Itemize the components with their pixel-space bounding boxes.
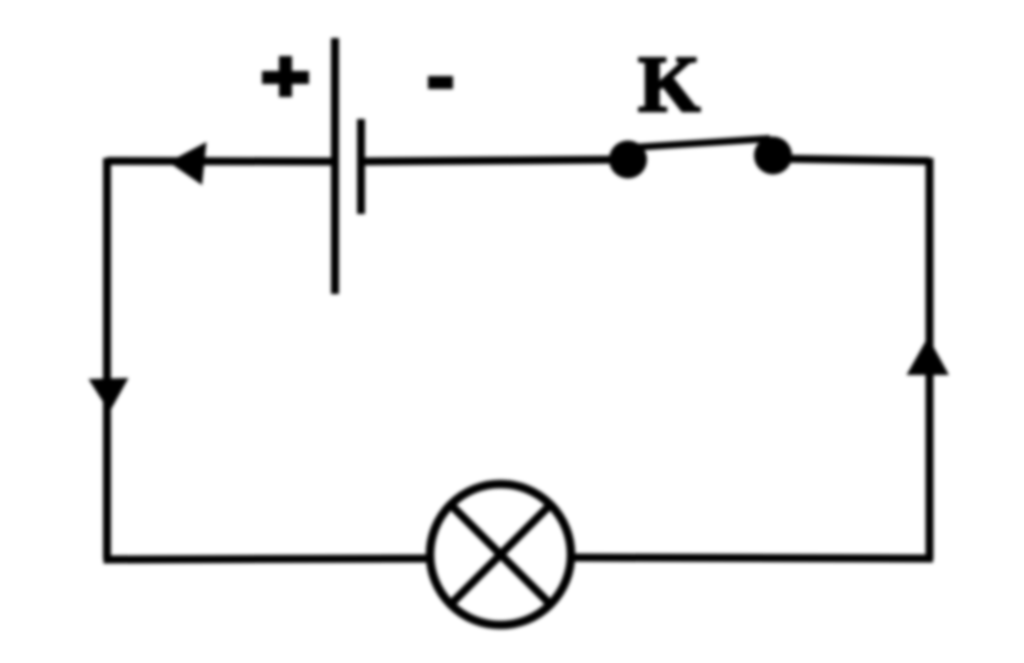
lamp circle	[430, 484, 571, 625]
current arrow down (left wire)	[89, 378, 129, 412]
wire bottom-right segment	[574, 558, 933, 559]
battery plus label	[262, 56, 309, 97]
current arrow up (right wire)	[907, 337, 950, 375]
battery long plate (+)	[331, 38, 339, 294]
wire left vertical	[103, 158, 111, 560]
battery short plate (-)	[357, 119, 365, 214]
wire top-middle segment	[361, 160, 630, 162]
wire top-left segment	[107, 157, 335, 166]
switch K blade	[625, 139, 770, 149]
wire top-right segment	[772, 159, 930, 162]
wire bottom-left segment	[104, 559, 429, 560]
lamp X cross diagonal 1	[451, 505, 551, 605]
switch K left contact dot	[609, 141, 647, 179]
battery minus label	[428, 76, 453, 89]
current arrow left (top wire)	[169, 142, 207, 185]
wire right vertical	[926, 158, 934, 560]
svg-text:K: K	[638, 41, 700, 129]
lamp X cross diagonal 2	[451, 505, 551, 605]
switch K right contact dot	[754, 137, 792, 175]
